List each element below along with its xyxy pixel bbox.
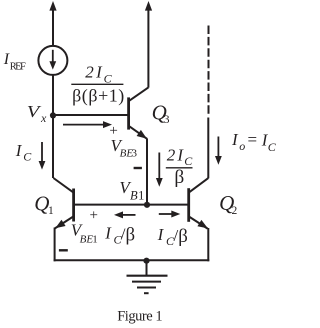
- label 2IC/(beta(beta+1)) fraction: [71, 63, 124, 107]
- wire Q2 collector up: [207, 118, 209, 179]
- label Io = IC: [231, 130, 277, 154]
- transistor Q2: [189, 178, 209, 229]
- label 2IC/beta fraction with down arrow: [156, 145, 193, 188]
- svg-text:β: β: [126, 224, 136, 245]
- label Q1: [34, 192, 54, 218]
- wire Vx down to Q1 collector: [52, 116, 54, 179]
- current source IREF: [38, 46, 67, 75]
- label minus of VBE1: [59, 249, 68, 251]
- svg-text:1: 1: [48, 205, 54, 217]
- wire Q2 emitter down to ground rail: [207, 228, 209, 261]
- wire Q1 emitter down to ground rail: [54, 228, 56, 262]
- wire from source to node Vx: [52, 75, 54, 116]
- svg-text:C: C: [104, 71, 113, 85]
- svg-text:3: 3: [132, 148, 138, 160]
- svg-text:C: C: [184, 154, 193, 168]
- svg-text:1: 1: [138, 189, 144, 203]
- wire base rail VB1 from Q1 to Q2: [74, 204, 189, 206]
- label VBE3: [111, 136, 138, 160]
- label Vx: [27, 102, 47, 125]
- label IC/beta (left): [104, 224, 135, 247]
- node Vx: [50, 112, 56, 118]
- svg-text:C: C: [268, 140, 277, 154]
- svg-text:3: 3: [164, 114, 170, 126]
- transistor Q1: [53, 178, 73, 229]
- svg-text:β(β+1): β(β+1): [72, 85, 124, 106]
- wire dashed output line: [208, 26, 210, 114]
- ground: [127, 261, 168, 294]
- node VB1: [144, 202, 150, 208]
- svg-text:B: B: [130, 189, 138, 203]
- wire IREF output up with arrow: [49, 1, 56, 46]
- node ground junction: [143, 258, 149, 264]
- arrow Io direction: [215, 137, 222, 165]
- wire Q3 collector up with arrow: [145, 1, 152, 88]
- svg-text:2: 2: [232, 205, 238, 217]
- label IC with arrow: [15, 141, 46, 170]
- svg-text:C: C: [23, 149, 32, 163]
- arrow base current into Q3: [63, 121, 112, 128]
- label IREF: [3, 51, 26, 73]
- svg-text:1: 1: [92, 234, 98, 246]
- label VB1: [119, 178, 144, 202]
- svg-text:x: x: [40, 111, 47, 125]
- svg-text:β: β: [178, 226, 188, 247]
- label IC/beta (right): [157, 225, 188, 248]
- label Q3: [152, 100, 170, 126]
- wire ground rail: [54, 259, 210, 261]
- svg-text:+: +: [90, 208, 98, 224]
- svg-text:Figure 1: Figure 1: [117, 309, 162, 325]
- svg-text:o: o: [239, 139, 245, 153]
- label VBE1: [71, 221, 98, 246]
- wire Q3 emitter down to node VB1: [146, 139, 148, 205]
- arrow base current into Q2 (right): [159, 211, 181, 218]
- svg-text:REF: REF: [10, 62, 26, 73]
- svg-text:=: =: [248, 130, 258, 149]
- transistor Q3: [129, 87, 149, 138]
- arrow base current into Q1 (left): [114, 211, 136, 218]
- label minus of VBE3: [134, 167, 142, 169]
- label Q2: [219, 191, 237, 217]
- svg-text:β: β: [174, 167, 184, 188]
- wire Vx to Q3 base: [53, 114, 129, 116]
